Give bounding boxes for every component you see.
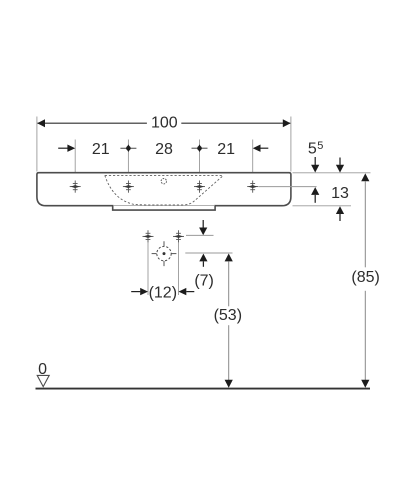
dim (53): bottom down-arrow [225, 380, 233, 388]
svg-text:5: 5 [308, 141, 317, 158]
right side: tap hole level extension line [259, 186, 317, 188]
dim (12): left arrow [131, 291, 140, 293]
chain dims: dot marker 1 [120, 147, 136, 149]
svg-text:21: 21 [92, 141, 110, 158]
dimension 100: right arrowhead [283, 119, 291, 127]
datum triangle [37, 375, 49, 386]
chain dims: dot marker 2 [192, 147, 208, 149]
dim (7): upper reference line [186, 234, 214, 236]
dim (85): line upper part [364, 181, 366, 267]
dim (85): upper up-arrow [361, 173, 369, 181]
dim 13: lower up-arrow [336, 206, 344, 214]
dim (12): extension line right [178, 243, 180, 295]
washbasin bowl hidden outline [105, 175, 224, 205]
dim (12): extension line left [147, 243, 149, 295]
drain hole crosshair [152, 253, 157, 255]
washbasin outline [37, 173, 291, 210]
dim (85): line lower part [364, 291, 366, 380]
drain position cross left [143, 230, 154, 242]
chain dims: right arrow [261, 147, 269, 149]
dim (7): lower up-arrow [199, 254, 207, 262]
right side: top edge extension line [293, 172, 371, 174]
floor line [36, 388, 371, 390]
dim 5/5: lower up-arrow [311, 187, 319, 195]
chain dims: left arrow [58, 147, 67, 149]
dim (53): line lower part [228, 325, 230, 380]
drain hole dashed circle [157, 246, 171, 260]
washbasin apron step inner line [113, 205, 215, 207]
chain dims: extension line hole 3 [199, 140, 201, 188]
tap hole cross 1 [70, 181, 81, 193]
right side: bottom edge extension line [293, 205, 352, 207]
dim (53): upper up-arrow [225, 254, 233, 262]
chain dims: extension line hole 2 [127, 140, 129, 188]
dimension 100: extension line left [36, 117, 38, 172]
svg-text:(12): (12) [149, 284, 177, 301]
dim (7): upper down-arrow [202, 220, 204, 228]
svg-text:13: 13 [331, 185, 349, 202]
svg-text:100: 100 [151, 114, 178, 131]
overflow hole [161, 179, 166, 184]
dimension 100: dimension line [38, 122, 147, 124]
svg-text:21: 21 [217, 141, 235, 158]
tap hole cross 3 [194, 181, 205, 193]
svg-text:(85): (85) [351, 269, 379, 286]
chain dims: extension line hole 1 [74, 140, 76, 188]
dim 5/5: upper down-arrow [314, 157, 316, 165]
dimension 100: left arrowhead [37, 119, 45, 127]
dim (7): lower reference line [185, 252, 232, 254]
dim (53): line upper part [228, 261, 230, 306]
svg-text:(53): (53) [214, 307, 242, 324]
dim 13: upper down-arrow [339, 158, 341, 165]
dimension 100: extension line right [290, 117, 292, 172]
drain position cross right [173, 230, 184, 242]
svg-text:5: 5 [317, 140, 323, 152]
chain dims: extension line hole 4 [252, 140, 254, 188]
dim (12): right arrow [179, 288, 187, 295]
tap hole cross 2 [123, 181, 134, 193]
dim (85): bottom down-arrow [361, 380, 369, 388]
tap hole cross 4 [247, 181, 258, 193]
svg-text:(7): (7) [194, 272, 214, 289]
svg-text:28: 28 [155, 141, 173, 158]
